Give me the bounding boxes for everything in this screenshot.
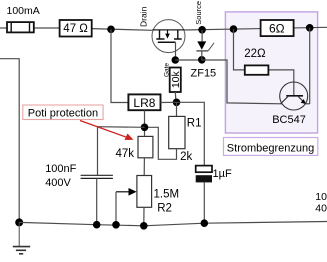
svg-text:Poti protection: Poti protection xyxy=(28,108,98,120)
potentiometer 47k xyxy=(138,136,153,157)
resistor R1 2k xyxy=(169,116,185,148)
capacitor 100nF xyxy=(81,175,113,178)
wire node B down to emitter xyxy=(309,28,311,104)
wire 1uF to rail xyxy=(203,182,205,223)
wiper arrow R2 xyxy=(116,188,137,196)
wire node A down to 22 ohm xyxy=(234,29,245,70)
ground symbol xyxy=(13,222,30,253)
svg-text:1.5M: 1.5M xyxy=(154,188,180,200)
wire 22 ohm to base xyxy=(268,70,293,96)
svg-text:47k: 47k xyxy=(116,148,135,160)
node source box entry junction xyxy=(230,25,238,33)
wire gate lead xyxy=(175,42,177,60)
wire R2 bottom to rail xyxy=(143,207,145,226)
wire gate rail to collector xyxy=(202,60,282,104)
resistor 10k xyxy=(170,68,183,93)
potentiometer R2 1.5M xyxy=(137,176,152,208)
wire source to output right edge xyxy=(185,27,327,30)
resistor 47 ohm xyxy=(60,20,92,37)
wire neutral input left xyxy=(0,59,19,223)
annotation arrow red xyxy=(80,121,134,141)
wire fuse to 47ohm xyxy=(34,27,60,29)
zener diode ZF15 xyxy=(196,30,214,60)
svg-text:ZF15: ZF15 xyxy=(191,68,217,80)
Strombegrenzung region box xyxy=(225,12,317,133)
svg-text:BC547: BC547 xyxy=(272,114,306,126)
node zener bottom junction xyxy=(198,56,206,64)
svg-text:1µF: 1µF xyxy=(213,168,232,180)
wire wiper down to rail xyxy=(115,192,117,225)
node ground junction xyxy=(15,218,23,226)
transistor Q1 MOSFET xyxy=(152,20,185,53)
wire ground rail bottom xyxy=(19,222,327,226)
svg-text:100nF: 100nF xyxy=(45,163,76,175)
regulator U1 LR8 xyxy=(128,94,160,110)
wire gate rail xyxy=(175,59,202,61)
svg-text:100mA: 100mA xyxy=(7,5,40,17)
fuse F1 100mA xyxy=(7,22,34,32)
node source junction xyxy=(198,26,206,34)
node junction drain xyxy=(107,26,115,34)
wire 47k to R2 xyxy=(143,158,145,176)
svg-text:22Ω: 22Ω xyxy=(244,48,266,60)
svg-text:400V: 400V xyxy=(45,177,71,189)
resistor 22 ohm xyxy=(245,65,269,74)
wire 100nF to rail xyxy=(96,178,98,224)
wire R1 bottom to adj node xyxy=(145,127,177,159)
wire 10k bottom to node xyxy=(174,92,177,102)
node rail wiper junction xyxy=(112,221,120,229)
wire 47ohm to drain xyxy=(92,29,153,31)
wire node to R1 top xyxy=(176,102,178,116)
svg-text:Drain: Drain xyxy=(139,6,149,27)
node LR8 output junction xyxy=(173,99,181,107)
node gate junction xyxy=(172,56,180,64)
svg-text:47 Ω: 47 Ω xyxy=(63,23,88,35)
svg-text:R2: R2 xyxy=(157,202,172,214)
svg-text:Source: Source xyxy=(194,1,203,25)
transistor Q2 BC547 xyxy=(280,82,310,110)
wire node to 1uF top xyxy=(177,102,205,165)
wire adj node to 100nF xyxy=(98,127,145,175)
wire mains input top xyxy=(0,27,7,29)
node output junction B xyxy=(306,24,314,32)
resistor 6 ohm xyxy=(261,20,294,36)
svg-text:LR8: LR8 xyxy=(133,96,155,110)
node adj junction xyxy=(141,124,149,132)
svg-text:Strombegrenzung: Strombegrenzung xyxy=(227,142,314,154)
wire LR8 out to node xyxy=(161,101,177,103)
svg-text:6Ω: 6Ω xyxy=(269,21,285,35)
node rail 100nF junction xyxy=(93,221,101,229)
node rail R2 junction xyxy=(140,222,148,230)
svg-text:2k: 2k xyxy=(180,151,192,163)
svg-text:40: 40 xyxy=(315,202,327,214)
svg-text:R1: R1 xyxy=(187,118,202,130)
node rail 1uF junction xyxy=(201,219,209,227)
wire LR8 adj down xyxy=(144,110,146,136)
label box Poti protection xyxy=(23,105,103,120)
svg-text:10: 10 xyxy=(315,191,327,203)
svg-text:10k: 10k xyxy=(170,70,182,88)
capacitor 1uF xyxy=(196,166,212,183)
wire drain node down to LR8 input xyxy=(111,29,128,102)
label box Strombegrenzung xyxy=(224,138,318,156)
